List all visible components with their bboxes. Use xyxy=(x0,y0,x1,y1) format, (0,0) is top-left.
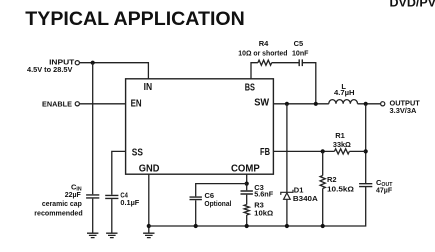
svg-text:4.5V to 28.5V: 4.5V to 28.5V xyxy=(27,65,72,74)
node R1/rail xyxy=(364,149,368,153)
resistor R1 xyxy=(334,149,349,154)
wire FB xyxy=(273,150,365,152)
terminal ENABLE xyxy=(75,102,79,106)
node GND rail junction xyxy=(147,224,151,228)
svg-text:10.5kΩ: 10.5kΩ xyxy=(327,184,354,193)
svg-text:R4: R4 xyxy=(259,39,269,48)
wire ENABLE to EN pin xyxy=(80,103,126,105)
node SW/D1 xyxy=(285,102,289,106)
svg-text:C5: C5 xyxy=(294,39,304,48)
capacitor C6 xyxy=(190,197,202,226)
wire INPUT to IN pin xyxy=(80,63,149,79)
capacitor CIN xyxy=(86,63,99,234)
svg-text:3.3V/3A: 3.3V/3A xyxy=(390,106,417,115)
inductor L xyxy=(329,100,358,104)
diode D1 wire from SW xyxy=(286,104,288,193)
svg-text:COMP: COMP xyxy=(231,163,260,174)
svg-text:FB: FB xyxy=(260,147,270,158)
wire COMP to C6 xyxy=(196,184,247,197)
node D1/rail xyxy=(285,224,289,228)
node SW/output rail xyxy=(364,102,368,106)
terminal OUTPUT xyxy=(381,102,385,106)
svg-text:33kΩ: 33kΩ xyxy=(333,140,351,149)
node C6/rail xyxy=(194,224,198,228)
diode D1 xyxy=(281,190,293,226)
capacitor C4 xyxy=(105,151,125,233)
node FB junction xyxy=(321,149,325,153)
svg-text:Optional: Optional xyxy=(204,199,231,208)
svg-text:10kΩ: 10kΩ xyxy=(254,208,273,217)
output rail wire down to COUT xyxy=(365,104,367,184)
svg-text:22µF: 22µF xyxy=(65,190,81,199)
capacitor C5 xyxy=(299,59,302,66)
svg-text:ceramic cap: ceramic cap xyxy=(42,199,82,208)
resistor R4 xyxy=(258,60,272,65)
svg-text:10Ω or shorted: 10Ω or shorted xyxy=(238,49,287,58)
svg-text:SS: SS xyxy=(132,148,143,159)
capacitor C3 xyxy=(241,184,253,205)
ground (CIN) xyxy=(87,233,98,237)
svg-text:SW: SW xyxy=(254,98,269,109)
svg-text:ENABLE: ENABLE xyxy=(42,100,72,109)
wire SW rail xyxy=(273,103,380,105)
svg-text:5.6nF: 5.6nF xyxy=(254,190,273,199)
terminal INPUT xyxy=(75,61,79,65)
svg-text:IN: IN xyxy=(144,82,153,93)
ground (GND pin) xyxy=(143,233,154,237)
svg-text:0.1µF: 0.1µF xyxy=(120,198,139,207)
resistor R3 xyxy=(244,205,249,227)
svg-text:DVD/PV: DVD/PV xyxy=(390,0,435,9)
op-amp U1 (regulator IC outline) xyxy=(126,79,274,174)
svg-text:BS: BS xyxy=(245,83,255,94)
node R3/rail xyxy=(245,224,249,228)
svg-text:10nF: 10nF xyxy=(292,48,309,57)
svg-text:4.7µH: 4.7µH xyxy=(334,88,355,97)
node SW/BS xyxy=(314,102,318,106)
svg-text:recommended: recommended xyxy=(34,209,83,218)
svg-text:R1: R1 xyxy=(335,131,345,140)
ground rail wire xyxy=(149,187,366,226)
wire BS branch xyxy=(251,63,316,104)
wire COMP pin down xyxy=(246,174,248,183)
svg-text:47µF: 47µF xyxy=(376,186,392,195)
node input junction xyxy=(91,61,95,65)
node R2/rail xyxy=(321,224,325,228)
svg-text:R2: R2 xyxy=(327,175,337,184)
ground (C4) xyxy=(106,233,117,237)
svg-text:GND: GND xyxy=(139,164,160,175)
svg-text:EN: EN xyxy=(131,98,142,109)
capacitor COUT xyxy=(359,184,372,187)
resistor R2 xyxy=(320,151,325,226)
wire GND pin to ground rail xyxy=(148,174,150,233)
svg-text:TYPICAL APPLICATION: TYPICAL APPLICATION xyxy=(25,8,244,30)
node COMP junction xyxy=(245,182,249,186)
svg-text:B340A: B340A xyxy=(293,194,319,203)
